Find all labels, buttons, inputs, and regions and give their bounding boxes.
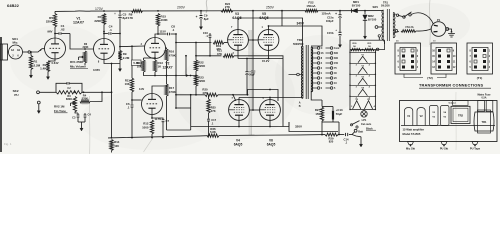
fuse FS1 mains (393, 32, 399, 34)
svg-text:50µF: 50µF (336, 112, 343, 116)
potentiometer RV2 1M PU tone (73, 97, 76, 113)
wire cathodes upper (237, 50, 239, 58)
heater ladder rungs (350, 51, 375, 53)
resistor R22 220K (195, 43, 197, 61)
svg-text:0.9V: 0.9V (139, 88, 144, 91)
svg-text:SW1: SW1 (373, 6, 379, 9)
svg-text:TRANSFORMER CONNECTIONS: TRANSFORMER CONNECTIONS (419, 83, 483, 88)
svg-text:0.64V: 0.64V (52, 61, 59, 65)
wire grid leak line (131, 46, 133, 60)
svg-text:10K: 10K (125, 82, 130, 86)
svg-text:220K: 220K (46, 20, 54, 24)
wire screens lower (249, 109, 253, 111)
wire plate line to OPT tap (269, 26, 323, 46)
wire feedback line (111, 64, 113, 138)
capacitor C6 .1 (131, 104, 134, 106)
svg-text:96V: 96V (47, 30, 52, 34)
chassis tube V2 (417, 108, 425, 126)
socket PU Skt (441, 142, 447, 145)
wire V2b grid (131, 99, 133, 101)
svg-text:+: + (335, 28, 337, 32)
wire V1a plate (54, 34, 56, 39)
svg-text:220K: 220K (198, 79, 206, 83)
ground bottom rail (352, 135, 361, 137)
svg-text:Fig. 1: Fig. 1 (4, 142, 12, 146)
svg-text:Cut-outs: Cut-outs (361, 123, 372, 126)
wire (131, 92, 133, 104)
svg-text:100: 100 (114, 144, 119, 148)
wire V2b cathode (151, 114, 153, 118)
wire SK2 (39, 91, 56, 93)
connector block T2 left (395, 43, 421, 74)
transformer T2 core (305, 45, 307, 99)
wire V5 plate (268, 26, 270, 30)
chassis outline (400, 101, 498, 142)
resistor R7 220K anode load (102, 14, 105, 25)
svg-text:RV1 250K: RV1 250K (70, 60, 84, 64)
svg-text:TR1: TR1 (481, 120, 487, 124)
svg-text:TR2: TR2 (297, 38, 303, 42)
svg-text:Com: Com (334, 47, 339, 50)
transformer T1 primary winding (393, 13, 395, 17)
wire to plug lower (416, 29, 431, 31)
wire cathode rail corner box (289, 122, 338, 132)
wire HT centre tap 340V (281, 11, 283, 26)
resistor R17 470K (165, 84, 168, 96)
wire (166, 96, 168, 130)
wire to V6 grid (218, 90, 278, 102)
svg-text:100µF: 100µF (326, 19, 334, 23)
svg-text:.1: .1 (172, 28, 175, 32)
capacitor C5 8uF decoupling (119, 11, 121, 14)
wire V1b cathode (104, 60, 120, 64)
ground SK2 (38, 104, 40, 111)
capacitor C17 .1 (208, 113, 210, 119)
svg-text:5000/500: 5000/500 (293, 43, 304, 46)
svg-text:Mic: Mic (12, 41, 17, 45)
svg-text:5/6.3/50: 5/6.3/50 (381, 5, 390, 8)
wire grid feed lower (176, 94, 205, 96)
svg-text:PU Skt: PU Skt (440, 146, 448, 150)
switch SW2 mains (398, 15, 403, 16)
svg-text:.02: .02 (60, 28, 65, 32)
ground C9 (200, 21, 202, 27)
wire RV2 bottom to tone caps (75, 112, 78, 114)
wire T1 to heater box (384, 40, 385, 44)
capacitor C12 50uF (246, 59, 248, 72)
wire cathode line (196, 55, 222, 57)
wire to plug upper (411, 13, 433, 24)
svg-text:12AX7: 12AX7 (162, 65, 172, 69)
svg-text:470K: 470K (169, 90, 177, 94)
wire splitter output line (166, 48, 168, 49)
tube V4 6AQ5 (229, 100, 250, 121)
svg-text:R25: R25 (211, 106, 216, 110)
ground MR2 (364, 30, 366, 36)
svg-text:PU: PU (14, 93, 18, 97)
svg-text:1000: 1000 (142, 125, 149, 129)
tap terminal left (297, 73, 300, 76)
wire V2a cathode (154, 59, 156, 61)
terminal T1 primary tap lower (393, 29, 394, 32)
svg-text:17K: 17K (128, 16, 134, 20)
wire to V1a grid (30, 49, 44, 52)
heater filaments V1 to V4 (358, 56, 367, 62)
socket PU Tape (472, 142, 478, 145)
svg-text:Fin Tone: Fin Tone (54, 109, 66, 113)
svg-text:10K: 10K (137, 65, 143, 69)
tube V3 6AQ5 (228, 30, 249, 51)
wire screen grid line (252, 11, 254, 110)
resistor R20 47K grid stopper (205, 93, 218, 96)
tube V2b 12AX7 (142, 94, 163, 115)
capacitor C4 .1 coupling (104, 33, 108, 35)
svg-text:.1: .1 (109, 28, 112, 32)
pilot lamp LP1 (363, 110, 365, 111)
label 5-80 (132, 60, 142, 66)
svg-text:27K: 27K (225, 5, 230, 9)
resistor R12 1000 cathode (150, 120, 153, 134)
svg-text:C17: C17 (211, 118, 216, 122)
heater ladder rails (349, 50, 351, 110)
chassis deck line (401, 125, 495, 127)
wire V3 plate to OPT (238, 18, 303, 46)
svg-text:(T2): (T2) (427, 76, 433, 80)
svg-text:300: 300 (334, 57, 339, 60)
transformer T2 primary winding (301, 46, 303, 49)
svg-text:C3: C3 (72, 116, 76, 120)
ground tone caps (81, 122, 83, 128)
svg-text:2.2M: 2.2M (123, 56, 130, 60)
wire box to T1 (378, 37, 380, 40)
svg-text:150: 150 (315, 112, 320, 116)
mains plug P1 (431, 22, 446, 37)
svg-text:47K: 47K (217, 52, 222, 56)
resistor R2 1.4K cathode bias (48, 59, 55, 61)
resistor R13 1K cathode (153, 60, 156, 72)
svg-text:220K: 220K (94, 19, 102, 23)
svg-text:5.6K: 5.6K (210, 130, 216, 134)
resistor R19 470 grid stopper (213, 41, 224, 44)
svg-text:TR2: TR2 (458, 114, 464, 118)
tube V6 6AQ5 (260, 100, 281, 121)
svg-text:+: + (114, 12, 116, 16)
capacitor C9 8uF decoupling (200, 11, 202, 15)
earth symbol mains (448, 32, 455, 34)
svg-text:6AQ5: 6AQ5 (234, 142, 243, 146)
wire (175, 76, 177, 109)
svg-text:Output: Output (449, 102, 456, 105)
wire C1 to volume (70, 34, 94, 50)
svg-text:50µF: 50µF (249, 74, 255, 77)
svg-text:+: + (196, 15, 198, 19)
ground V1b cathode (119, 64, 121, 69)
capacitor C2 in parallel with resistor R3 680K (56, 83, 67, 92)
svg-text:BY100: BY100 (352, 3, 361, 7)
svg-text:680K: 680K (66, 97, 72, 101)
wire SK1 to grid (8, 51, 9, 53)
chassis transformer TR2 (451, 106, 470, 123)
svg-text:64B22: 64B22 (7, 3, 20, 8)
resistor R1 2.2M grid leak (30, 52, 32, 56)
junction arrow (186, 74, 188, 76)
terminal heater tap (376, 48, 379, 51)
ground C15 (339, 39, 341, 45)
svg-text:320V: 320V (295, 125, 302, 129)
svg-text:RV2 1M: RV2 1M (54, 104, 65, 108)
chassis terminal strip (453, 101, 469, 106)
resistor R24 27K on rail (221, 9, 233, 12)
ground R1 (30, 70, 32, 76)
svg-text:1Ω: 1Ω (17, 50, 20, 52)
resistor R4 270K (80, 100, 90, 103)
resistor R8 17K on rail (132, 10, 143, 13)
chassis fuse holders (478, 101, 485, 112)
svg-text:150: 150 (334, 62, 339, 65)
svg-text:125mA: 125mA (322, 12, 331, 16)
connector SK1 Mic input (0, 44, 8, 60)
svg-text:FS1 2A: FS1 2A (406, 26, 414, 29)
wire R4 riser (90, 92, 102, 101)
svg-text:C4: C4 (88, 113, 92, 117)
resistor R5 220K anode load (54, 11, 56, 13)
ground R2 (47, 72, 49, 77)
resistor R11 10K (130, 78, 133, 92)
wire screens upper (248, 39, 253, 41)
resistor R9 2.2M (118, 51, 121, 61)
terminal plug (446, 28, 449, 31)
transformer T1 secondary winding (382, 10, 384, 14)
svg-text:250V: 250V (266, 6, 275, 10)
feedback box network (167, 129, 191, 131)
wire plug to earth (446, 29, 452, 32)
svg-text:115V: 115V (160, 29, 167, 33)
svg-text:340V: 340V (297, 21, 305, 25)
wire V2b plate (152, 86, 167, 94)
chassis tubes V3 V5 (430, 106, 439, 126)
svg-text:Mic Skt: Mic Skt (406, 146, 415, 150)
capacitor C10 .1 (209, 33, 211, 35)
wire drive line (155, 75, 196, 77)
bracket T2 (404, 74, 423, 78)
wire grid feed V2a (119, 34, 121, 47)
wire grid feed upper (176, 42, 212, 44)
svg-text:600: 600 (334, 52, 339, 55)
chassis tube V1 (405, 108, 413, 126)
svg-text:1.4K: 1.4K (40, 67, 47, 71)
svg-text:470K: 470K (169, 53, 177, 57)
heater filaments V5 V6 (353, 101, 361, 109)
svg-text:12-Watt amplifier: 12-Watt amplifier (403, 128, 425, 132)
svg-text:47K: 47K (202, 91, 207, 95)
resistor R14 feedback to ground (111, 137, 113, 139)
svg-text:MR2: MR2 (368, 14, 374, 18)
svg-text:B: B (299, 105, 301, 108)
svg-text:(T1): (T1) (477, 76, 483, 80)
svg-text:27K: 27K (211, 109, 216, 113)
svg-text:+: + (335, 12, 337, 16)
wire cathode return (282, 59, 284, 127)
wire cathodes lower (238, 120, 240, 126)
chassis transformer TR1 (474, 112, 494, 131)
terminal T1 primary tap upper (393, 13, 395, 16)
resistor R25 27K (208, 96, 210, 99)
tube V2a 12AX7 (145, 38, 166, 59)
capacitor C8 .1 coupling (158, 33, 167, 35)
svg-text:PU Tape: PU Tape (470, 146, 481, 150)
capacitor C13 50uF bypass (322, 106, 333, 108)
wire bottom rail (108, 136, 207, 138)
svg-text:8µF: 8µF (204, 17, 209, 21)
wire V4 V6 plates to OPT (238, 98, 240, 100)
wire (234, 56, 283, 59)
resistor R23 220K (195, 71, 197, 75)
resistor R16 470K (165, 49, 168, 61)
diode MR2 (364, 11, 366, 15)
resistor R10 10K (143, 58, 145, 60)
svg-text:P1: P1 (437, 18, 441, 22)
svg-text:CA: CA (11, 49, 15, 52)
capacitor C7 25uF bypass (152, 118, 163, 119)
wire cathode join (238, 58, 283, 60)
svg-text:Mic Volume: Mic Volume (70, 65, 86, 69)
wire V4 grid stub (232, 94, 234, 96)
svg-text:170V: 170V (95, 7, 104, 11)
svg-text:Model TA1505: Model TA1505 (403, 132, 421, 136)
svg-text:15.2V: 15.2V (262, 59, 269, 63)
resistor R21 47K (223, 54, 234, 57)
svg-text:270K: 270K (82, 97, 88, 101)
transformer T1 core (386, 9, 388, 41)
potentiometer RV1 250K Mic Volume (83, 51, 86, 63)
svg-text:8µF: 8µF (123, 16, 128, 20)
chassis tubes V4 V6 (441, 106, 450, 126)
fuse FS2 (305, 9, 318, 12)
capacitor C1 .02 coupling (55, 33, 58, 35)
wire V2a plate (155, 34, 158, 38)
tube V5 6AQ5 (258, 30, 279, 51)
wire PU network (82, 91, 112, 93)
svg-text:220K: 220K (83, 46, 89, 49)
connector block T1 (467, 43, 493, 74)
output taps (312, 47, 317, 49)
resistor R15 100K anode load (156, 14, 159, 27)
socket Mic Skt (408, 142, 414, 145)
svg-text:220K: 220K (198, 64, 206, 68)
wire T2 secondary bottom (311, 91, 322, 100)
resistor R27 150 cathode bias (321, 100, 323, 107)
resistor R29 820 in feedback rail (325, 133, 338, 136)
svg-text:C15b: C15b (327, 31, 334, 35)
capacitor C15b 100uF (339, 31, 342, 33)
resistor R26 5.6K feedback in rail (207, 134, 219, 137)
tube V1b 12AX7 second triode (94, 39, 115, 60)
svg-text:0.65V: 0.65V (93, 68, 100, 72)
connector block T2 right (431, 43, 457, 74)
svg-text:150mA: 150mA (306, 4, 315, 8)
capacitor C14 .1 feedback (345, 133, 347, 136)
terminal HT (375, 26, 378, 29)
terminal to speaker (352, 132, 355, 135)
wire link cathode line to drive line (185, 56, 187, 76)
tube V1a 12AX7 first triode (45, 38, 66, 59)
junction bead (28, 51, 30, 53)
svg-text:6AQ5: 6AQ5 (267, 142, 276, 146)
svg-text:0.5A: 0.5A (481, 97, 486, 100)
wire bias network bottom (321, 121, 323, 135)
switch cut-out (350, 124, 352, 126)
svg-text:200V: 200V (177, 6, 186, 10)
svg-text:C: C (321, 47, 323, 50)
wire (166, 61, 168, 84)
transformer T2 secondary winding (311, 47, 312, 50)
capacitor C15a 100uF reservoir (339, 11, 341, 14)
svg-text:BY100: BY100 (368, 17, 377, 21)
svg-text:Batt: Batt (358, 131, 363, 134)
svg-text:LP1: LP1 (362, 118, 367, 122)
wire cathode rail (190, 95, 192, 130)
svg-text:100K: 100K (161, 18, 169, 22)
junction dots bottom rail (131, 137, 133, 139)
wire coupling line upper (175, 34, 177, 76)
svg-text:12AX7: 12AX7 (73, 21, 84, 25)
wire HT B+ rail (55, 10, 384, 13)
svg-text:820: 820 (329, 140, 334, 144)
heater dropper box (350, 40, 385, 49)
diode MR1 rectifier (352, 9, 358, 13)
